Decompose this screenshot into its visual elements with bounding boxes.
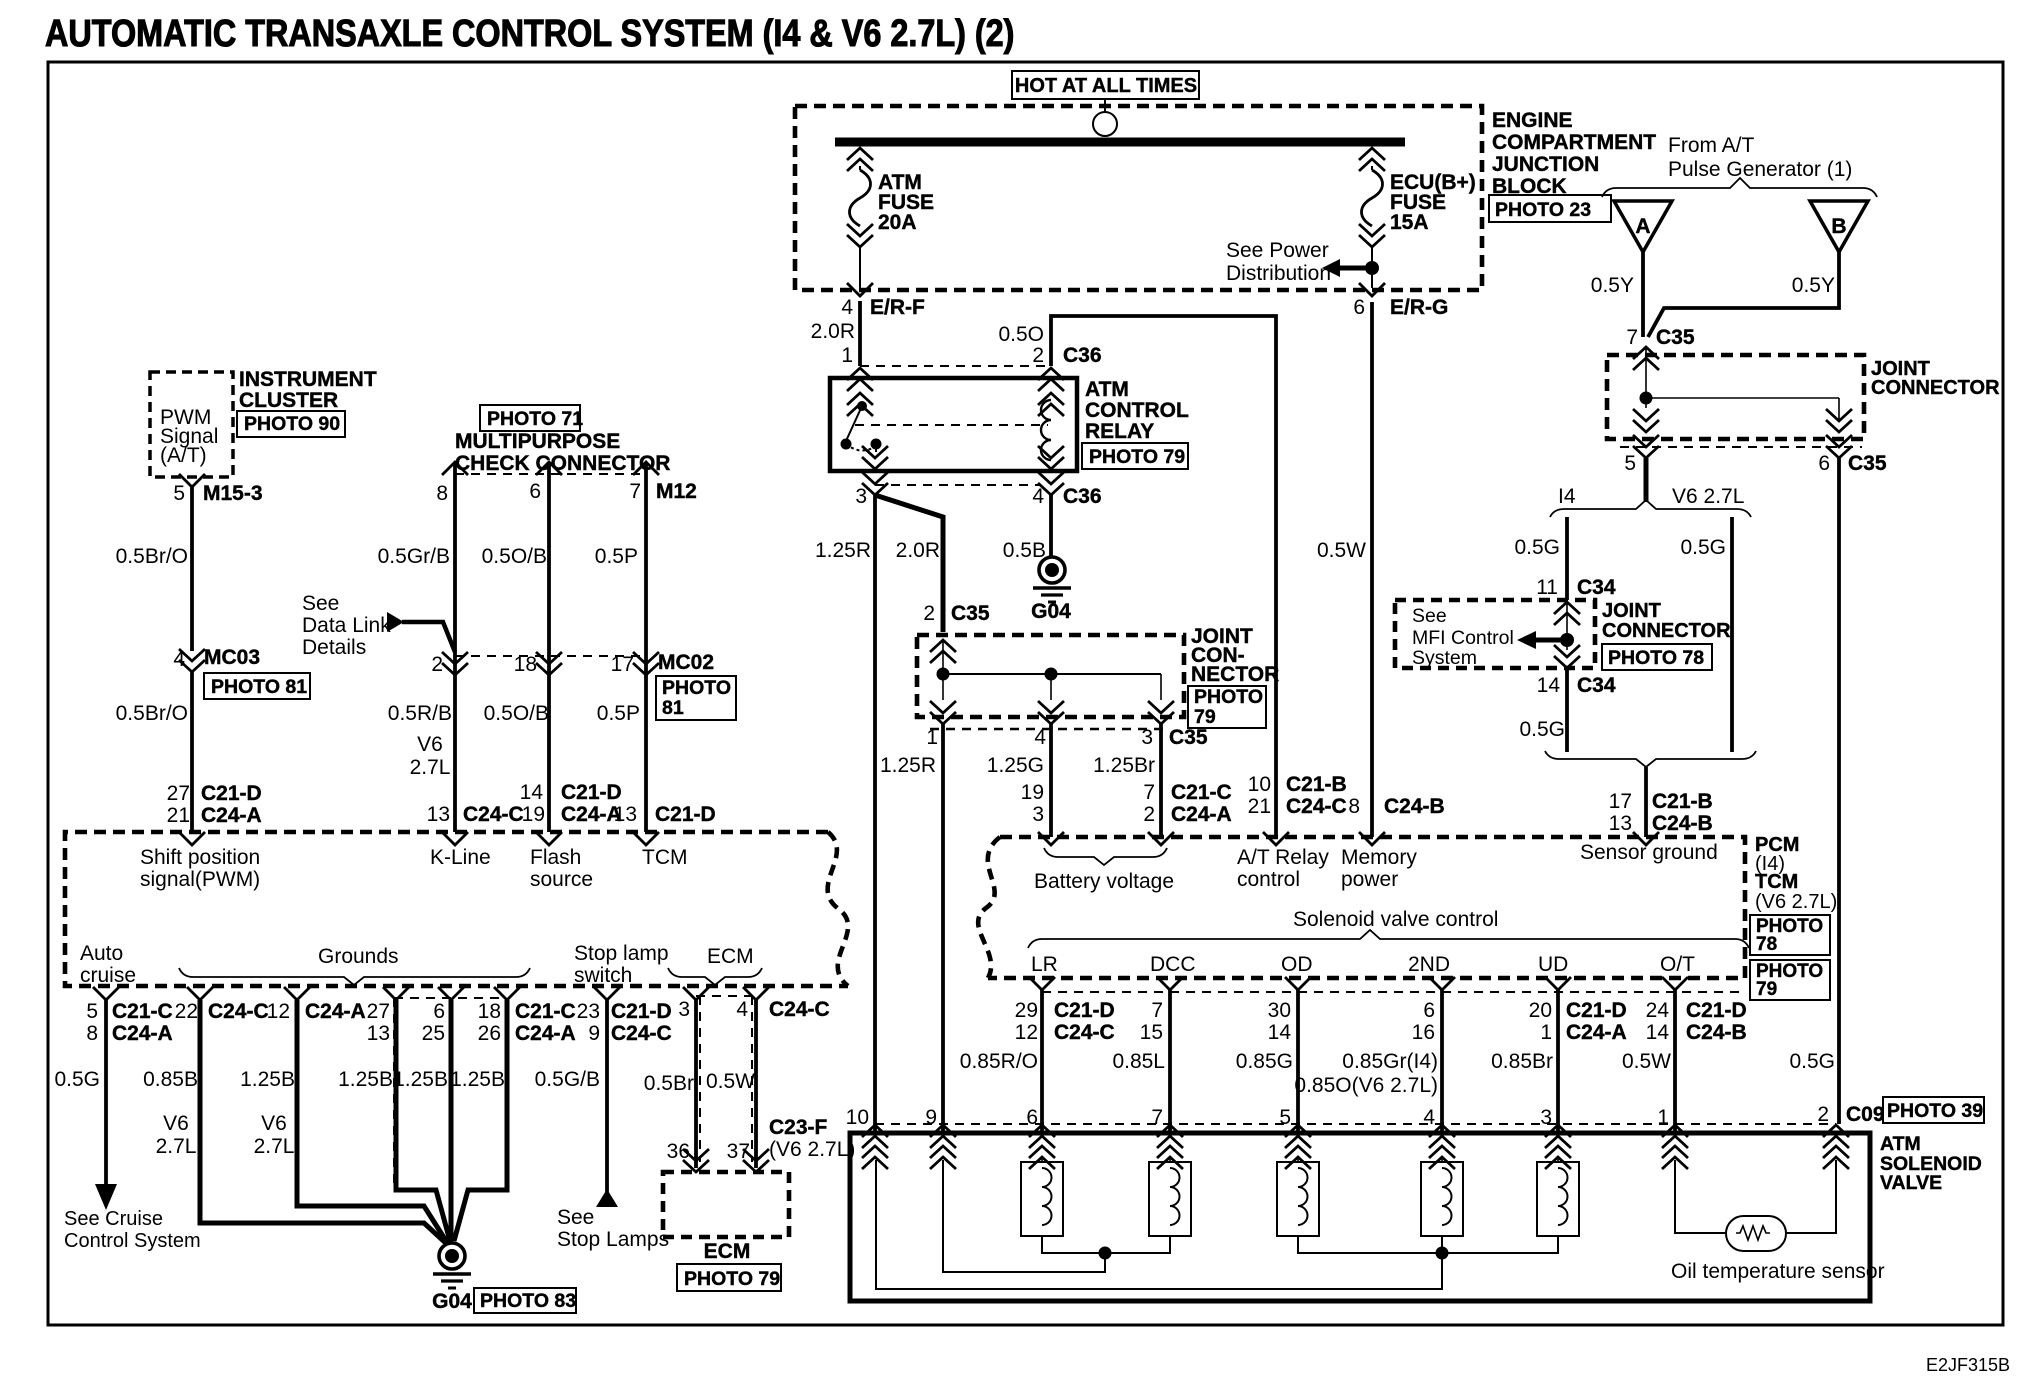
svg-text:6: 6 <box>1423 999 1435 1022</box>
svg-text:PHOTO 90: PHOTO 90 <box>244 413 340 435</box>
LR wire 0.85R/O <box>1029 977 1055 990</box>
svg-text:C24-C: C24-C <box>463 803 524 826</box>
svg-text:0.5G: 0.5G <box>1789 1050 1835 1073</box>
svg-text:COMPARTMENT: COMPARTMENT <box>1492 131 1656 154</box>
svg-text:B: B <box>1831 215 1846 238</box>
svg-text:PHOTO: PHOTO <box>662 677 731 699</box>
instrument cluster dashed box <box>150 372 233 477</box>
relay pin 2 chevrons <box>1038 368 1064 391</box>
wire 1.25R long left <box>873 495 877 1133</box>
svg-text:13: 13 <box>367 1022 390 1045</box>
wire to I4/V6 brace <box>1644 458 1649 502</box>
svg-text:CONTROL: CONTROL <box>1085 399 1189 422</box>
svg-text:C24-A: C24-A <box>201 804 262 827</box>
svg-text:control: control <box>1237 868 1300 891</box>
wire 0.5O from relay pin2 up and right to A/T relay control <box>1051 316 1276 837</box>
svg-text:C24-A: C24-A <box>305 1000 366 1023</box>
svg-text:15: 15 <box>1140 1021 1163 1044</box>
svg-text:26: 26 <box>478 1022 501 1045</box>
svg-text:2: 2 <box>923 602 935 625</box>
relay pin 4 chevrons <box>1038 446 1064 469</box>
connector top dashed line <box>455 473 646 475</box>
svg-text:0.5G: 0.5G <box>1519 718 1565 741</box>
wavy right edge of TCM box <box>828 832 848 986</box>
connector MC03 <box>179 649 205 672</box>
svg-text:C24-C: C24-C <box>1054 1021 1115 1044</box>
svg-text:C21-D: C21-D <box>1054 999 1115 1022</box>
relay coil <box>1041 400 1051 460</box>
svg-text:7: 7 <box>629 480 641 503</box>
svg-text:19: 19 <box>1021 781 1044 804</box>
svg-text:MC03: MC03 <box>204 646 260 669</box>
bus supply circle <box>1093 112 1117 136</box>
svg-text:2ND: 2ND <box>1408 953 1450 976</box>
wire 0.5B to ground G04 <box>1049 495 1053 557</box>
wire flash source 0.5O/B <box>536 462 562 475</box>
svg-text:JUNCTION: JUNCTION <box>1492 153 1599 176</box>
svg-text:0.5G: 0.5G <box>1680 536 1726 559</box>
wire auto cruise 0.5G <box>93 987 119 1000</box>
wire 6 C35 sensor return 0.5G long <box>1837 458 1841 1124</box>
wire TCM 0.5P <box>633 462 659 475</box>
svg-text:C21-B: C21-B <box>1652 790 1713 813</box>
svg-text:System: System <box>1412 647 1477 669</box>
svg-text:C24-C: C24-C <box>769 998 830 1021</box>
svg-text:C24-A: C24-A <box>112 1022 173 1045</box>
solenoid LR coil <box>1021 1158 1063 1236</box>
svg-text:Details: Details <box>302 636 366 659</box>
svg-text:14: 14 <box>1537 674 1561 697</box>
wire E/R-F 2.0R down to relay pin 1 <box>858 301 862 366</box>
svg-text:C36: C36 <box>1063 344 1102 367</box>
svg-text:Battery voltage: Battery voltage <box>1034 870 1174 893</box>
svg-text:10: 10 <box>846 1106 869 1129</box>
svg-text:C23-F: C23-F <box>769 1116 828 1139</box>
multipurpose check connector labels <box>480 405 580 431</box>
svg-text:RELAY: RELAY <box>1085 420 1154 443</box>
svg-text:(A/T): (A/T) <box>160 444 207 467</box>
internal return bus OD/2ND/UD <box>1298 1236 1558 1253</box>
svg-text:5: 5 <box>173 482 185 505</box>
ATM solenoid valve box <box>850 1133 1870 1301</box>
svg-text:13: 13 <box>1609 812 1632 835</box>
svg-text:PHOTO 39: PHOTO 39 <box>1887 1100 1983 1122</box>
svg-text:7: 7 <box>1626 326 1638 349</box>
svg-text:27: 27 <box>167 782 190 805</box>
ground wire 6/25 1.25B <box>438 987 464 1000</box>
svg-text:79: 79 <box>1194 706 1216 728</box>
svg-text:M12: M12 <box>656 480 697 503</box>
svg-text:V6: V6 <box>417 733 443 756</box>
relay pin 3 chevrons <box>862 446 888 469</box>
svg-text:PHOTO 71: PHOTO 71 <box>487 408 583 430</box>
PCM/TCM connector dashed box (right) <box>988 837 1745 978</box>
svg-text:81: 81 <box>662 697 684 719</box>
svg-text:0.85O(V6 2.7L): 0.85O(V6 2.7L) <box>1294 1074 1438 1097</box>
svg-text:C24-C: C24-C <box>611 1022 672 1045</box>
svg-text:AUTOMATIC TRANSAXLE CONTROL SY: AUTOMATIC TRANSAXLE CONTROL SYSTEM (I4 &… <box>45 13 1014 55</box>
2ND wire 0.85Gr/0.85O <box>1429 977 1455 990</box>
svg-text:I4: I4 <box>1558 485 1576 508</box>
svg-text:0.5G/B: 0.5G/B <box>535 1068 600 1091</box>
svg-text:1.25G: 1.25G <box>987 754 1044 777</box>
svg-text:18: 18 <box>514 653 537 676</box>
svg-text:C36: C36 <box>1063 485 1102 508</box>
svg-text:9: 9 <box>925 1106 937 1129</box>
ECM dashed box <box>663 1172 789 1237</box>
svg-text:0.5Y: 0.5Y <box>1591 274 1634 297</box>
merge brace to sensor ground <box>1545 751 1756 767</box>
svg-text:1.25B: 1.25B <box>240 1068 295 1091</box>
svg-text:9: 9 <box>588 1022 600 1045</box>
svg-text:0.5G: 0.5G <box>1514 536 1560 559</box>
svg-text:0.5Gr/B: 0.5Gr/B <box>378 545 450 568</box>
svg-text:7: 7 <box>1151 999 1163 1022</box>
svg-text:1: 1 <box>1657 1106 1669 1129</box>
svg-text:12: 12 <box>267 1000 290 1023</box>
battery voltage brace <box>1044 848 1167 865</box>
svg-text:C35: C35 <box>1848 452 1887 475</box>
svg-text:17: 17 <box>1609 790 1632 813</box>
svg-text:6: 6 <box>1353 296 1365 319</box>
O/T wire 0.5W <box>1662 977 1688 990</box>
svg-text:C21-C: C21-C <box>1171 781 1232 804</box>
svg-text:1.25R: 1.25R <box>880 754 936 777</box>
svg-text:4: 4 <box>1423 1106 1435 1129</box>
connector MC02 row dashed <box>455 655 646 657</box>
svg-text:2: 2 <box>431 653 443 676</box>
joint connector (right) dashed box <box>1607 355 1864 439</box>
pulse generator brace <box>1602 178 1877 197</box>
svg-text:Grounds: Grounds <box>318 945 399 968</box>
svg-text:Sensor ground: Sensor ground <box>1580 841 1718 864</box>
svg-text:14: 14 <box>520 781 544 804</box>
svg-text:VALVE: VALVE <box>1880 1172 1942 1194</box>
svg-text:1.25R: 1.25R <box>815 539 871 562</box>
ground G04 (main) <box>433 1243 471 1288</box>
relay pin 1 chevrons <box>847 368 873 391</box>
svg-text:0.5Br/O: 0.5Br/O <box>116 702 188 725</box>
thin dashed connector outline around ground wires <box>393 998 395 1190</box>
svg-text:12: 12 <box>1015 1021 1038 1044</box>
svg-text:UD: UD <box>1538 953 1568 976</box>
svg-text:20A: 20A <box>878 211 917 234</box>
svg-text:0.5R/B: 0.5R/B <box>388 702 452 725</box>
svg-text:4: 4 <box>173 648 185 671</box>
I4 / V6 split brace <box>1550 500 1751 517</box>
svg-text:4: 4 <box>1032 485 1044 508</box>
svg-text:Pulse Generator (1): Pulse Generator (1) <box>1668 158 1852 181</box>
svg-text:15A: 15A <box>1390 211 1429 234</box>
svg-text:1.25B: 1.25B <box>338 1068 393 1091</box>
svg-text:16: 16 <box>1412 1021 1435 1044</box>
svg-text:0.5W: 0.5W <box>1622 1050 1671 1073</box>
svg-text:18: 18 <box>478 1000 501 1023</box>
svg-text:0.85B: 0.85B <box>143 1068 198 1091</box>
wire PWM signal 0.5Br/O <box>179 474 205 487</box>
svg-text:79: 79 <box>1756 979 1777 1000</box>
svg-text:0.5W: 0.5W <box>706 1070 755 1093</box>
svg-text:Stop Lamps: Stop Lamps <box>557 1228 669 1251</box>
svg-text:2.0R: 2.0R <box>811 320 855 343</box>
svg-text:13: 13 <box>614 803 637 826</box>
svg-text:Data Link: Data Link <box>302 614 391 637</box>
svg-text:21: 21 <box>1248 795 1271 818</box>
svg-text:C21-D: C21-D <box>655 803 716 826</box>
svg-text:1.25B: 1.25B <box>450 1068 505 1091</box>
svg-text:cruise: cruise <box>80 964 136 987</box>
svg-text:10: 10 <box>1248 773 1271 796</box>
svg-text:C24-A: C24-A <box>1171 803 1232 826</box>
svg-text:C24-A: C24-A <box>515 1022 576 1045</box>
wire E/R-G 0.5W memory power <box>1370 302 1374 837</box>
svg-text:PHOTO 79: PHOTO 79 <box>1089 446 1185 468</box>
internal return bus LR/DCC <box>1042 1236 1170 1253</box>
svg-text:78: 78 <box>1756 934 1777 955</box>
wire I4 0.5G <box>1565 517 1569 600</box>
svg-text:6: 6 <box>529 480 541 503</box>
svg-text:11: 11 <box>1536 576 1558 599</box>
svg-text:0.5Br: 0.5Br <box>644 1072 694 1095</box>
svg-text:1: 1 <box>1540 1021 1552 1044</box>
svg-text:6: 6 <box>1026 1106 1038 1129</box>
svg-text:C21-B: C21-B <box>1286 773 1347 796</box>
svg-text:1.25B: 1.25B <box>393 1068 448 1091</box>
svg-text:25: 25 <box>422 1022 445 1045</box>
svg-text:C09: C09 <box>1846 1103 1885 1126</box>
svg-text:(V6 2.7L): (V6 2.7L) <box>769 1138 855 1161</box>
svg-text:Memory: Memory <box>1341 846 1417 869</box>
triangle A <box>1614 201 1672 252</box>
svg-text:C21-C: C21-C <box>515 1000 576 1023</box>
svg-text:0.85Br: 0.85Br <box>1491 1050 1553 1073</box>
svg-text:C21-C: C21-C <box>112 1000 173 1023</box>
svg-text:MC02: MC02 <box>658 651 714 674</box>
solenoid OD coil <box>1277 1158 1319 1236</box>
wire V6 0.5G <box>1730 517 1734 752</box>
fuse ECU(B+) FUSE 15A <box>1359 148 1385 171</box>
svg-text:C24-B: C24-B <box>1384 795 1445 818</box>
svg-text:See: See <box>1412 605 1447 627</box>
svg-text:See: See <box>302 592 339 615</box>
svg-text:(V6 2.7L): (V6 2.7L) <box>1755 891 1837 913</box>
ECM wires 0.5Br / 0.5W <box>696 995 756 997</box>
solenoid DCC coil <box>1149 1158 1191 1236</box>
svg-text:0.5B: 0.5B <box>1003 539 1046 562</box>
svg-text:V6: V6 <box>163 1112 189 1135</box>
svg-text:E/R-G: E/R-G <box>1390 296 1448 319</box>
svg-text:2.7L: 2.7L <box>410 756 451 779</box>
connector row C36 top (dashed) <box>860 365 1051 367</box>
svg-text:Solenoid valve control: Solenoid valve control <box>1293 908 1498 931</box>
svg-text:E/R-F: E/R-F <box>870 296 925 319</box>
svg-text:24: 24 <box>1646 999 1670 1022</box>
svg-text:2: 2 <box>1032 344 1044 367</box>
svg-text:TCM: TCM <box>1755 871 1798 893</box>
svg-text:E2JF315B: E2JF315B <box>1926 1355 2010 1375</box>
OD wire 0.85G <box>1285 977 1311 990</box>
grounds brace <box>179 968 530 985</box>
svg-text:TCM: TCM <box>642 846 688 869</box>
svg-text:PHOTO 23: PHOTO 23 <box>1495 199 1591 221</box>
svg-text:A/T Relay: A/T Relay <box>1237 846 1329 869</box>
svg-text:MULTIPURPOSE: MULTIPURPOSE <box>455 430 620 453</box>
stop lamp switch wire 0.5G/B <box>594 987 620 1000</box>
HOT AT ALL TIMES label box <box>1012 71 1199 99</box>
svg-text:G04: G04 <box>1031 600 1071 623</box>
svg-text:C24-B: C24-B <box>1652 812 1713 835</box>
svg-text:2.0R: 2.0R <box>896 539 940 562</box>
svg-text:Oil temperature sensor: Oil temperature sensor <box>1671 1260 1885 1283</box>
svg-text:27: 27 <box>367 1000 390 1023</box>
lower thin dashed connector row <box>1042 991 1745 993</box>
svg-text:C24-B: C24-B <box>1686 1021 1747 1044</box>
svg-text:1: 1 <box>926 726 938 749</box>
svg-text:4: 4 <box>841 296 853 319</box>
svg-text:13: 13 <box>427 803 450 826</box>
svg-text:V6: V6 <box>261 1112 287 1135</box>
svg-text:ECM: ECM <box>704 1240 751 1263</box>
svg-text:0.5P: 0.5P <box>597 702 640 725</box>
svg-text:Control System: Control System <box>64 1230 201 1252</box>
svg-text:14: 14 <box>1646 1021 1670 1044</box>
svg-text:2: 2 <box>1817 1103 1829 1126</box>
svg-text:20: 20 <box>1529 999 1552 1022</box>
svg-text:See Power: See Power <box>1226 239 1329 262</box>
svg-text:C24-A: C24-A <box>561 803 622 826</box>
svg-text:23: 23 <box>577 1000 600 1023</box>
svg-text:PHOTO 81: PHOTO 81 <box>211 676 307 698</box>
triangle B <box>1810 201 1868 252</box>
svg-text:See Cruise: See Cruise <box>64 1208 163 1230</box>
TCM connector dashed box (left) <box>65 832 848 986</box>
svg-text:17: 17 <box>611 653 634 676</box>
svg-text:0.5P: 0.5P <box>595 545 638 568</box>
svg-text:19: 19 <box>522 803 545 826</box>
svg-text:5: 5 <box>86 1000 98 1023</box>
svg-text:HOT AT ALL TIMES: HOT AT ALL TIMES <box>1015 75 1197 97</box>
wire K-line 0.5Gr/B <box>442 462 468 475</box>
svg-text:8: 8 <box>436 482 448 505</box>
solenoid 2ND coil <box>1421 1158 1463 1236</box>
svg-text:DCC: DCC <box>1150 953 1196 976</box>
svg-text:MFI Control: MFI Control <box>1412 627 1514 649</box>
svg-text:CONNECTOR: CONNECTOR <box>1602 620 1731 642</box>
svg-text:A: A <box>1635 215 1650 238</box>
svg-text:C35: C35 <box>951 602 990 625</box>
svg-text:CLUSTER: CLUSTER <box>239 389 338 412</box>
svg-text:PHOTO 78: PHOTO 78 <box>1608 647 1704 669</box>
svg-text:ATM: ATM <box>1085 378 1129 401</box>
svg-text:3: 3 <box>1141 726 1153 749</box>
svg-text:0.5G: 0.5G <box>54 1068 100 1091</box>
ground wire 27/13 1.25B <box>383 987 409 1000</box>
svg-text:0.85Gr(I4): 0.85Gr(I4) <box>1342 1050 1438 1073</box>
relay switch <box>857 401 867 411</box>
wire 1.25G battery voltage <box>1049 724 1053 837</box>
box entry chevrons <box>862 1125 888 1148</box>
svg-text:ATM: ATM <box>1880 1133 1921 1155</box>
svg-text:V6 2.7L: V6 2.7L <box>1672 485 1744 508</box>
svg-text:2: 2 <box>1143 803 1155 826</box>
svg-text:JOINT: JOINT <box>1602 600 1661 622</box>
svg-text:30: 30 <box>1268 999 1291 1022</box>
wire 1.25Br battery voltage <box>1159 724 1163 837</box>
svg-text:3: 3 <box>855 485 867 508</box>
svg-text:C21-D: C21-D <box>1566 999 1627 1022</box>
svg-text:C21-D: C21-D <box>561 781 622 804</box>
svg-text:C34: C34 <box>1577 576 1616 599</box>
engine compartment junction block (dashed box) <box>795 106 1482 290</box>
ground wire 18/26 1.25B <box>494 987 520 1000</box>
svg-text:signal(PWM): signal(PWM) <box>140 868 260 891</box>
svg-text:PHOTO 83: PHOTO 83 <box>480 1290 576 1312</box>
svg-text:1: 1 <box>841 344 853 367</box>
svg-text:0.5O/B: 0.5O/B <box>484 702 549 725</box>
wire 1.25R to solenoid pin 9 <box>941 724 945 1133</box>
wire 0.5Br/O lower <box>190 672 194 832</box>
svg-text:14: 14 <box>1268 1021 1292 1044</box>
svg-text:0.5Y: 0.5Y <box>1792 274 1835 297</box>
wire B 0.5Y <box>1648 252 1839 337</box>
svg-text:From A/T: From A/T <box>1668 134 1755 157</box>
DCC wire 0.85L <box>1157 977 1183 990</box>
svg-text:Distribution: Distribution <box>1226 262 1331 285</box>
svg-text:Stop lamp: Stop lamp <box>574 942 669 965</box>
svg-text:C24-C: C24-C <box>208 1000 269 1023</box>
svg-text:OD: OD <box>1281 953 1313 976</box>
svg-text:C21-D: C21-D <box>1686 999 1747 1022</box>
svg-text:LR: LR <box>1031 953 1058 976</box>
svg-text:power: power <box>1341 868 1398 891</box>
ground wire 12 C24-A 1.25B <box>284 987 310 1000</box>
svg-text:Flash: Flash <box>530 846 581 869</box>
svg-text:5: 5 <box>1279 1106 1291 1129</box>
svg-text:22: 22 <box>175 1000 198 1023</box>
svg-text:0.85R/O: 0.85R/O <box>960 1050 1038 1073</box>
svg-text:C24-C: C24-C <box>1286 795 1347 818</box>
svg-text:G04: G04 <box>432 1290 472 1313</box>
svg-text:0.85G: 0.85G <box>1236 1050 1293 1073</box>
svg-text:C35: C35 <box>1656 326 1695 349</box>
ground wire 22 C24-C 0.85B <box>187 987 213 1000</box>
svg-text:NECTOR: NECTOR <box>1191 663 1279 686</box>
wire 2.0R jog to C35 pin 2 <box>875 495 943 632</box>
wire 0.5G below C34 <box>1565 668 1569 752</box>
svg-text:0.5W: 0.5W <box>1317 539 1366 562</box>
svg-text:29: 29 <box>1015 999 1038 1022</box>
svg-text:7: 7 <box>1143 781 1155 804</box>
svg-text:C21-D: C21-D <box>201 782 262 805</box>
power bus bar <box>835 138 1405 147</box>
svg-text:5: 5 <box>1624 452 1636 475</box>
wire A 0.5Y <box>1641 252 1645 337</box>
svg-text:Auto: Auto <box>80 942 123 965</box>
internal bus <box>942 640 944 700</box>
svg-text:ENGINE: ENGINE <box>1492 109 1573 132</box>
svg-text:1.25Br: 1.25Br <box>1093 754 1155 777</box>
svg-text:C35: C35 <box>1169 726 1208 749</box>
ground G04 (relay) <box>1033 557 1071 602</box>
svg-text:CONNECTOR: CONNECTOR <box>1871 377 2000 399</box>
svg-text:O/T: O/T <box>1660 953 1695 976</box>
svg-text:0.5O/B: 0.5O/B <box>482 545 547 568</box>
svg-text:0.5Br/O: 0.5Br/O <box>116 545 188 568</box>
svg-text:source: source <box>530 868 593 891</box>
svg-text:4: 4 <box>1034 726 1046 749</box>
connector row C36 bottom (dashed) <box>875 484 1040 486</box>
svg-text:See: See <box>557 1206 594 1229</box>
